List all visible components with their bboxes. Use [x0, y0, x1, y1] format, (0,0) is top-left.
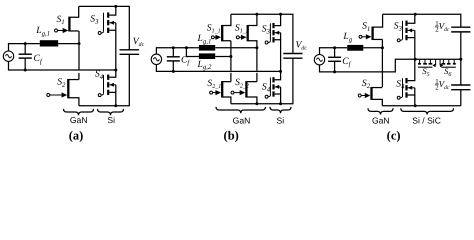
junction dot Cf bottom (b) — [172, 70, 175, 73]
transistor S2_2 GaN (b) — [231, 81, 257, 104]
transistor S6 lateral MOSFET (c) — [440, 59, 456, 67]
wire: node M1 down to S2 drain (c) — [381, 48, 383, 87]
transistor S2_1 GaN (b) — [210, 81, 231, 104]
caption (c) — [387, 128, 401, 142]
label Si (b) — [276, 115, 284, 125]
junction dot S4 source at bottom rail (c) — [414, 104, 417, 107]
capacitor Cf (b) — [167, 57, 180, 61]
label Cf (c) — [342, 56, 351, 68]
wire: capacitor column upper-to-branch (c) — [460, 32, 462, 59]
wire: split drop to phase wire 2 (b) — [186, 48, 199, 57]
wire: top rail (b) — [231, 14, 293, 53]
transistor S2 GaN (a) — [47, 79, 79, 106]
inductor Lg,2 (b) — [199, 53, 215, 59]
svg-text:(b): (b) — [224, 128, 239, 142]
label S5 (c) — [422, 66, 429, 78]
svg-text:Si: Si — [276, 115, 284, 125]
junction dot bottom rail / S4 source (a) — [114, 104, 117, 107]
wire: phase wire 1 from Lg,1 to leg2 (b) — [215, 47, 257, 49]
label Si / SiC (c) — [412, 116, 441, 126]
label Lg,2 (b) — [197, 59, 212, 71]
label GaN (c) — [372, 116, 390, 126]
inductor Lg,1 (b) — [199, 45, 215, 51]
transistor S4 Si MOSFET (b) — [265, 71, 280, 103]
junction dot Cf top (c) — [333, 46, 336, 49]
wire: leg2 vertical below dot to crossover (b) — [256, 48, 258, 71]
label 1/2 Vdc upper (c) — [435, 20, 450, 33]
wire: bottom rail (b) — [231, 58, 293, 103]
junction dot node M1 (c) — [381, 46, 384, 49]
junction dot top rail at leg2 (b) — [255, 13, 258, 16]
AC source Vg (a) — [3, 51, 13, 61]
label GaN (a) — [70, 115, 88, 125]
label Lg,1 (a) — [35, 25, 50, 37]
wire: Cf bottom lead (b) — [172, 61, 174, 72]
label Lg,1 (b) — [197, 33, 212, 45]
junction dot phase split (b) — [185, 46, 188, 49]
transistor S1 GaN (c) — [359, 14, 383, 40]
transistor S4 Si MOSFET (a) — [98, 70, 116, 106]
svg-text:(c): (c) — [387, 128, 401, 142]
svg-text:Si / SiC: Si / SiC — [412, 116, 441, 126]
brace Si leg (b) — [270, 107, 291, 113]
junction dot slow-leg midpoint (b) — [279, 70, 282, 73]
label S3 (c) — [394, 20, 403, 32]
wire: Cf top lead (b) — [172, 48, 174, 57]
wire: capacitor column branch-to-lower (c) — [460, 59, 462, 85]
label S1 (a) — [57, 14, 65, 26]
label S3 (b) — [262, 24, 271, 36]
transistor S1_2 GaN (b) — [236, 14, 257, 47]
capacitor lower half Vdc/2 (c) — [451, 85, 470, 90]
label S1_1 (b) — [207, 22, 221, 34]
label S4 (b) — [262, 81, 271, 93]
wire: bottom rail (c) — [382, 105, 461, 107]
capacitor Vdc (b) — [283, 54, 302, 59]
junction dot S2_2 source at bottom rail (b) — [255, 102, 258, 105]
AC source Vg (c) — [314, 55, 324, 65]
label Vdc (a) — [133, 36, 145, 48]
transistor S3 Si MOSFET (b) — [265, 14, 280, 71]
wire: AC bottom lead and return to slow-leg midpoint (b) — [156, 64, 280, 71]
capacitor Vdc (a) — [120, 50, 140, 55]
transistor S5 lateral MOSFET (c) — [418, 59, 436, 67]
wire: top rail (a) — [79, 6, 130, 49]
wire: S2_1 drain up to crossover break (b) — [230, 73, 232, 82]
wire: S2 drain up to crossover break (a) — [78, 73, 80, 80]
label S2 (c) — [362, 78, 371, 90]
label S4 (a) — [95, 69, 104, 81]
transistor S4 Si/SiC MOSFET (c) — [397, 59, 415, 106]
capacitor Cf (c) — [328, 57, 341, 61]
wire: AC top lead to phase wire 1 (b) — [156, 48, 199, 55]
junction dot top rail at slow leg (b) — [279, 13, 282, 16]
transistor S1_1 GaN (b) — [211, 14, 231, 41]
wire: leg1 vertical below node to crossover (b) — [230, 57, 232, 71]
capacitor upper half Vdc/2 (c) — [451, 27, 470, 32]
label Si (a) — [107, 115, 115, 125]
wire: lower capacitor to bottom rail (c) — [460, 90, 462, 106]
label GaN (b) — [233, 115, 251, 125]
caption (a) — [69, 128, 84, 142]
label Lg (c) — [342, 31, 352, 43]
label Vdc (b) — [296, 39, 308, 51]
label S2 (a) — [57, 77, 66, 89]
label Cf (a) — [34, 53, 43, 65]
wire: AC bottom lead, return with jog to midpoint (c) — [320, 59, 416, 72]
svg-text:GaN: GaN — [372, 116, 390, 126]
junction dot midpoint M2 (c) — [414, 58, 417, 61]
label 1/2 Vdc lower (c) — [435, 78, 450, 91]
wire: S2_2 drain up to crossover break (b) — [256, 73, 258, 82]
junction dot phase2 at leg1 (b) — [229, 55, 232, 58]
brace GaN legs (b) — [216, 107, 266, 113]
wire: AC top lead to inductor (c) — [320, 48, 348, 55]
label S6 (c) — [444, 66, 451, 78]
junction dot Cf top (b) — [172, 46, 175, 49]
label S1_2 (b) — [235, 22, 249, 34]
wire: Cf top lead (c) — [334, 48, 336, 58]
svg-text:Si: Si — [107, 115, 115, 125]
capacitor Cf (a) — [19, 54, 32, 58]
wire: AC bottom lead and return to slow-leg midpoint (a) — [9, 61, 116, 70]
wire: phase wire 2 from Lg,2 to leg1 (b) — [215, 56, 231, 58]
label Cf (b) — [181, 54, 190, 66]
junction dot node M1 (a) — [78, 42, 81, 45]
transistor S2 GaN (c) — [358, 87, 382, 106]
brace GaN leg (c) — [368, 108, 393, 114]
wire: node M1 down to crossover (a) — [78, 44, 80, 70]
transistor S3 Si/SiC MOSFET (c) — [397, 14, 415, 59]
inductor Lg,1 (a) — [40, 40, 58, 46]
junction dot phase1 at leg2 (b) — [255, 46, 258, 49]
wire: S1 source down to node M1 (a) — [78, 31, 80, 44]
junction dot slow-leg midpoint (a) — [114, 69, 117, 72]
junction dot Cf bottom (a) — [24, 69, 27, 72]
AC source Vg (b) — [151, 54, 161, 64]
label S1 (c) — [362, 21, 370, 33]
wire: Cf top lead (a) — [24, 44, 26, 55]
wire: S1 source down to node M1 (c) — [381, 40, 383, 48]
junction dot top rail at Si leg (c) — [414, 13, 417, 16]
transistor S3 Si MOSFET (a) — [98, 6, 116, 70]
transistor S1 GaN (a) — [55, 6, 79, 33]
label S4 (c) — [396, 78, 405, 90]
junction dot branch at capacitor column (c) — [459, 58, 462, 61]
label S2_1 (b) — [207, 78, 221, 90]
caption (b) — [224, 128, 239, 142]
svg-text:(a): (a) — [69, 128, 84, 142]
inductor Lg (c) — [347, 45, 363, 51]
wire: inductor to node M1 (a) — [58, 43, 79, 45]
label S2_2 (b) — [235, 77, 249, 89]
brace GaN leg (a) — [64, 109, 94, 115]
wire: bottom rail (a) — [79, 54, 129, 105]
wire: S1_1 source down to phase2 node (b) — [230, 41, 232, 57]
svg-text:GaN: GaN — [70, 115, 88, 125]
junction dot S4 source at bottom rail (b) — [279, 102, 282, 105]
wire: Cf bottom lead (a) — [24, 58, 26, 70]
wire: inductor to node M1 (c) — [363, 47, 382, 49]
wire: top rail (c) — [383, 14, 461, 27]
svg-text:GaN: GaN — [233, 115, 251, 125]
brace Si leg (a) — [98, 109, 124, 115]
label S3 (a) — [90, 13, 99, 25]
junction dot top rail / S3 drain (a) — [114, 5, 117, 8]
junction dot Cf bottom (c) — [333, 70, 336, 73]
junction dot Cf top (a) — [24, 42, 27, 45]
wire: AC top lead to inductor (a) — [9, 44, 40, 52]
brace Si/SiC section (c) — [401, 108, 454, 114]
wire: bidirectional branch (c) — [415, 58, 461, 60]
wire: Cf bottom lead (c) — [334, 61, 336, 72]
